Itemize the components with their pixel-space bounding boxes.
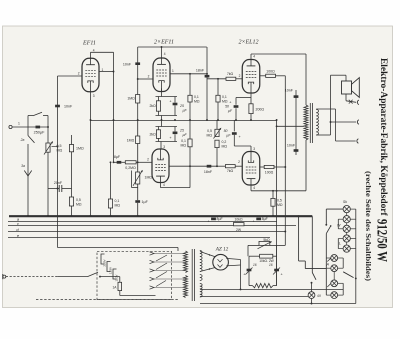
svg-text:MΩ: MΩ: [206, 134, 212, 138]
connector hook c: [357, 139, 359, 144]
switch lamp selector: [343, 272, 353, 278]
output transformer primary: [304, 105, 308, 140]
selector tap 125V: [107, 262, 111, 272]
power transformer core: [191, 249, 193, 301]
svg-text:8µF: 8µF: [217, 217, 223, 221]
output transformer secondary: [316, 110, 318, 136]
svg-text:25: 25: [179, 129, 184, 133]
svg-text:2kΩ: 2kΩ: [149, 133, 156, 137]
resistor 7k a: [226, 77, 236, 80]
wire AZ12 output: [240, 260, 242, 290]
capacitor 8uF a: [211, 218, 216, 221]
svg-text:0,1: 0,1: [194, 95, 199, 99]
wire V1 grid vertical: [57, 76, 59, 248]
capacitor 50uF b: [233, 120, 235, 131]
capacitor 10nF snubber b: [294, 149, 299, 152]
wire V3 bottom pin: [160, 182, 162, 187]
node rail: [189, 119, 191, 121]
heater line a: [200, 288, 343, 290]
pin 4 V2: [161, 47, 163, 58]
resistor 7k b: [217, 165, 225, 167]
resistor 0.1M grid leak V3a: [110, 162, 112, 199]
svg-text:10nF: 10nF: [64, 105, 73, 109]
resistor 1M grid V2: [136, 95, 140, 104]
svg-text:10nF: 10nF: [287, 143, 296, 147]
svg-text:1: 1: [18, 122, 20, 126]
wire stage2 top line: [138, 46, 207, 48]
capacitor 10nF coupling V2: [137, 47, 139, 120]
wire V1 cathode to bus: [90, 92, 92, 216]
node rail: [217, 119, 219, 121]
capacitor 50uF a: [235, 98, 237, 105]
lamp pilot 4V: [311, 283, 313, 292]
resistor 0.2M coupling: [125, 161, 136, 164]
svg-text:16: 16: [269, 263, 273, 267]
svg-text:MΩ: MΩ: [180, 143, 186, 147]
svg-text:125V: 125V: [109, 266, 113, 274]
lower lamp 2: [331, 265, 338, 272]
wire speaker top: [331, 74, 347, 76]
lamp right stubs: [350, 208, 355, 210]
wire switch branch up: [27, 116, 29, 128]
B+ vertical: [276, 120, 278, 286]
box bottom dashed: [36, 299, 178, 301]
svg-text:0,1: 0,1: [222, 95, 227, 99]
wire V1 plate pin: [99, 71, 114, 73]
svg-text:0,2: 0,2: [222, 140, 227, 144]
svg-text:20nF: 20nF: [54, 181, 63, 185]
screen rail vertical: [284, 76, 286, 246]
node rail: [206, 119, 208, 121]
capacitor 16uF a: [248, 256, 250, 285]
wire screen drop x207: [206, 47, 208, 120]
resistor 2k a: [156, 101, 160, 111]
wire V1 plate top: [91, 51, 114, 53]
capacitor 18nF b: [207, 165, 212, 168]
node rail: [161, 119, 163, 121]
potentiometer 0.5M volume: [46, 143, 50, 152]
tube AZ12: [213, 254, 229, 270]
cathode network V3 top: [161, 120, 163, 127]
wire cathode bracket b: [156, 141, 178, 143]
svg-text:MΩ: MΩ: [194, 99, 200, 103]
resistor 0.5M lower: [69, 197, 73, 206]
wire V1 plate vertical: [113, 52, 115, 162]
lamp bracket b: [337, 239, 339, 249]
lamp 2: [343, 216, 350, 223]
wire V3 plate line: [169, 165, 217, 167]
wire common rail: [91, 120, 277, 122]
wire field tap: [331, 121, 357, 123]
resistor 0.2M b: [215, 140, 219, 147]
heater line b: [200, 296, 308, 298]
switch lamp group: [326, 226, 330, 233]
capacitor 8uF b: [256, 218, 261, 221]
svg-text:0,2MΩ: 0,2MΩ: [125, 166, 136, 170]
tube EF11 V3 inverted: [152, 149, 169, 183]
svg-text:+: +: [207, 220, 209, 224]
wire secondary tap: [336, 140, 356, 142]
crossing mark: [349, 100, 353, 104]
capacitor 250uF: [36, 126, 41, 129]
wire pot drop: [47, 116, 49, 144]
svg-text:2×EL12: 2×EL12: [238, 40, 258, 46]
lamp chain stubs: [346, 213, 348, 216]
svg-text:4: 4: [164, 52, 166, 56]
svg-text:1MΩ: 1MΩ: [76, 147, 84, 151]
rail a: [8, 221, 277, 223]
capacitor 16uF b: [276, 245, 278, 285]
svg-text:110V: 110V: [115, 274, 119, 282]
bus corner to pilot switch: [311, 216, 313, 272]
wire pot wiper: [52, 146, 58, 148]
mains switch: [58, 276, 88, 278]
wire V5 plate bottom: [250, 185, 252, 191]
svg-text:7kΩ: 7kΩ: [227, 72, 234, 76]
wire input line: [12, 126, 48, 128]
svg-text:0,1: 0,1: [115, 199, 120, 203]
power transformer primary: [184, 251, 188, 273]
chassis bus: [9, 215, 312, 217]
node rail: [235, 119, 237, 121]
svg-text:50: 50: [224, 129, 228, 133]
connector hook a: [357, 100, 359, 105]
node rail: [250, 119, 252, 121]
fuse 1A: [119, 277, 121, 283]
lower lamp 3: [331, 280, 338, 287]
svg-text:1: 1: [172, 69, 174, 73]
tube EF11 V2: [153, 58, 170, 92]
capacitor 1uF: [137, 184, 139, 200]
svg-text:7kΩ: 7kΩ: [227, 169, 234, 173]
switch 2a: [27, 127, 29, 136]
svg-text:c: c: [17, 221, 19, 226]
resistor 0.5M bleeder: [272, 191, 274, 199]
svg-text:EF11: EF11: [82, 41, 96, 47]
switch pilot: [312, 273, 316, 280]
wire lamp1 feed: [326, 208, 343, 210]
svg-text:8µF: 8µF: [262, 217, 268, 221]
output transformer core: [309, 103, 311, 143]
wire speaker bottom: [345, 94, 347, 101]
capacitor 10nF snubber a: [295, 90, 297, 155]
svg-text:10nF: 10nF: [123, 62, 132, 66]
svg-text:50: 50: [225, 105, 229, 109]
lamp right rail: [355, 209, 357, 303]
svg-text:MΩ: MΩ: [277, 203, 283, 207]
mains line dashed: [6, 276, 58, 278]
svg-text:200Ω: 200Ω: [256, 108, 265, 112]
svg-text:3: 3: [163, 145, 165, 149]
cathode V4: [250, 93, 252, 104]
connector 3a: [27, 144, 29, 216]
svg-text:2: 2: [238, 160, 240, 164]
rail d: [8, 231, 285, 233]
svg-text:250µF: 250µF: [34, 131, 46, 135]
capacitor 25uF b: [174, 127, 176, 132]
pin 4 V4: [250, 54, 252, 60]
svg-text:AZ 12: AZ 12: [215, 246, 229, 252]
svg-text:0,5: 0,5: [76, 198, 81, 202]
connector hook b: [357, 120, 359, 125]
svg-text:2kΩ: 2kΩ: [149, 104, 156, 108]
svg-text:Elektro-Apparate-Fabrik, Köppe: Elektro-Apparate-Fabrik, Köppelsdorf: [378, 58, 389, 218]
capacitor 10nF grid V1: [55, 105, 60, 108]
svg-text:MΩ: MΩ: [76, 203, 82, 207]
B+ center tap: [277, 125, 304, 127]
lamp L: [343, 245, 350, 252]
selector cross wires: [156, 255, 167, 261]
svg-text:2×EF11: 2×EF11: [154, 40, 174, 46]
svg-text:2: 2: [148, 75, 150, 79]
capacitor 18nF a: [205, 75, 210, 78]
svg-text:18nF: 18nF: [196, 69, 205, 73]
speaker cone: [352, 78, 360, 98]
svg-text:220V: 220V: [103, 258, 107, 266]
svg-text:4: 4: [253, 55, 255, 59]
svg-text:+: +: [253, 220, 255, 224]
resistor 1M b: [137, 120, 139, 136]
speaker frame: [342, 81, 352, 94]
wire V4 plate to transformer: [251, 53, 306, 55]
svg-text:1µF: 1µF: [142, 200, 149, 204]
lower lamp 4: [331, 292, 338, 299]
svg-text:0,5: 0,5: [277, 199, 282, 203]
potentiometer 1M feedback: [137, 162, 139, 172]
resistor 10k 2W rail: [233, 223, 244, 226]
svg-text:2: 2: [239, 74, 241, 78]
node rail: [137, 119, 139, 121]
capacitor 25uF a: [174, 97, 176, 103]
svg-text:5kΩ: 5kΩ: [263, 238, 270, 242]
svg-text:4: 4: [253, 186, 255, 190]
wire to 7k a: [207, 78, 226, 80]
wire V1 grid: [58, 75, 83, 77]
resistor 5k adjustable: [259, 241, 270, 245]
svg-text:MΩ: MΩ: [222, 99, 228, 103]
svg-text:L: L: [339, 242, 341, 246]
tube EF11 V1: [82, 58, 99, 92]
pin 4 V1: [90, 52, 92, 58]
resistor 100R b: [260, 166, 265, 168]
svg-text:2: 2: [147, 158, 149, 162]
tube EL12 V5 lower inverted: [242, 152, 260, 186]
wire V2 plate: [170, 73, 207, 75]
wire secondary bottom: [316, 134, 330, 136]
power transformer LT winding b: [200, 284, 202, 298]
svg-text:1MΩ: 1MΩ: [145, 176, 153, 180]
lower lamp left stubs: [326, 257, 331, 259]
svg-text:8µF: 8µF: [114, 155, 121, 159]
lamp 4: [343, 235, 350, 242]
resistor 100R a: [260, 75, 266, 77]
svg-text:10nF: 10nF: [285, 89, 294, 93]
capacitor 8uF coupling: [114, 161, 120, 163]
svg-text:10kΩ: 10kΩ: [234, 218, 242, 222]
cathode network V2: [161, 88, 163, 96]
svg-text:3: 3: [253, 147, 255, 151]
selector tap 110V: [113, 269, 117, 279]
wire lamp group drop: [325, 234, 327, 296]
wire pot bottom to bus: [47, 152, 49, 216]
resistor 0.1M b: [217, 79, 219, 96]
potentiometer 0.5M b: [216, 120, 218, 129]
svg-text:W: W: [337, 224, 341, 228]
svg-text:100Ω: 100Ω: [266, 69, 275, 73]
power transformer HV secondary: [200, 251, 202, 272]
svg-text:100Ω: 100Ω: [265, 171, 274, 175]
svg-text:0,1: 0,1: [181, 139, 186, 143]
svg-text:1MΩ: 1MΩ: [127, 138, 135, 142]
svg-text:(rechte Seite des Schaltbildes: (rechte Seite des Schaltbildes): [364, 171, 372, 282]
selector tap 220V: [101, 254, 105, 264]
resistor 2k b: [156, 130, 160, 139]
wire secondary top: [316, 108, 335, 110]
svg-text:0,5: 0,5: [207, 129, 212, 133]
power transformer LT winding a: [200, 275, 202, 281]
svg-text:2a: 2a: [20, 138, 25, 142]
wire cathode bottom a: [156, 115, 178, 117]
lamp W: [343, 225, 350, 232]
resistor 0.1M c: [189, 120, 191, 139]
lower lamp 1: [331, 255, 338, 262]
voltage selector box: [97, 251, 172, 299]
bleeder resistor: [249, 285, 253, 287]
svg-text:MΩ: MΩ: [115, 204, 121, 208]
svg-text:MΩ: MΩ: [222, 145, 228, 149]
capacitor 20nF: [48, 188, 59, 190]
wire speaker field vertical: [330, 75, 332, 135]
svg-text:1MΩ: 1MΩ: [127, 97, 135, 101]
svg-text:3: 3: [93, 94, 95, 98]
rail e: [8, 237, 270, 239]
resistor 0.1M a: [189, 74, 191, 96]
lamp bracket a: [337, 219, 339, 229]
lower lamp bracket b: [342, 283, 344, 295]
tube EL12 V4 upper: [242, 60, 260, 94]
svg-text:25: 25: [179, 104, 184, 108]
svg-text:912/50 W: 912/50 W: [374, 219, 390, 262]
resistor 10k 2W filter: [260, 254, 273, 258]
AZ12 pin wires: [200, 252, 215, 257]
wire transformer top line: [58, 247, 179, 249]
svg-text:2W: 2W: [236, 228, 242, 232]
selector contacts: [150, 252, 155, 255]
input terminal: [9, 125, 12, 128]
selector slashes: [327, 258, 331, 261]
node rail: [276, 119, 278, 121]
lower lamp bracket a: [342, 258, 344, 268]
resistor 1M input: [71, 135, 73, 145]
node rail: [174, 119, 176, 121]
heater line c: [200, 303, 356, 305]
svg-text:2: 2: [78, 72, 80, 76]
wire heater drop: [298, 216, 300, 261]
svg-text:16: 16: [253, 263, 257, 267]
svg-text:3a: 3a: [21, 164, 25, 168]
mains plug: [3, 275, 6, 278]
wire V2 grid: [138, 78, 153, 80]
svg-text:18nF: 18nF: [204, 170, 213, 174]
switch 1a lever: [33, 112, 42, 116]
svg-text:Sk: Sk: [343, 200, 347, 204]
lower lamp chain stub: [333, 272, 335, 280]
svg-text:4: 4: [163, 183, 165, 187]
lamp Sk: [343, 206, 350, 213]
rail c: [8, 225, 296, 227]
